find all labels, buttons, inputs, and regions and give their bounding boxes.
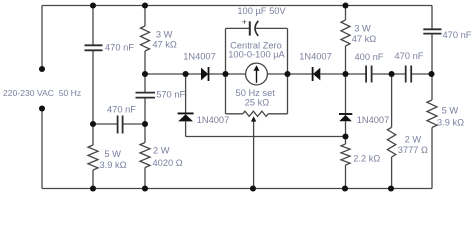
svg-text:2 W: 2 W xyxy=(405,135,422,145)
svg-text:3 W: 3 W xyxy=(354,24,371,34)
svg-text:220-230 VAC 50 Hz: 220-230 VAC 50 Hz xyxy=(3,88,81,98)
svg-text:3777 Ω: 3777 Ω xyxy=(398,145,428,155)
svg-text:50 Hz set: 50 Hz set xyxy=(236,88,276,98)
svg-text:100-0-100 µA: 100-0-100 µA xyxy=(228,50,285,60)
svg-text:5 W: 5 W xyxy=(104,149,121,159)
svg-text:47 kΩ: 47 kΩ xyxy=(352,34,377,44)
svg-text:570 nF: 570 nF xyxy=(156,90,185,100)
svg-text:1N4007: 1N4007 xyxy=(197,115,230,125)
svg-text:470 nF: 470 nF xyxy=(443,30,472,40)
svg-text:47 kΩ: 47 kΩ xyxy=(152,39,177,49)
svg-text:1N4007: 1N4007 xyxy=(183,52,216,62)
svg-text:3.9 kΩ: 3.9 kΩ xyxy=(99,160,126,170)
svg-text:2 W: 2 W xyxy=(153,146,170,156)
svg-text:100 µF 50V: 100 µF 50V xyxy=(237,6,286,16)
svg-text:470 nF: 470 nF xyxy=(395,51,424,61)
svg-text:470 nF: 470 nF xyxy=(107,105,136,115)
svg-text:1N4007: 1N4007 xyxy=(299,52,332,62)
svg-text:3.9 kΩ: 3.9 kΩ xyxy=(437,117,464,127)
svg-text:4020 Ω: 4020 Ω xyxy=(153,158,183,168)
svg-text:5 W: 5 W xyxy=(442,106,459,116)
svg-text:3 W: 3 W xyxy=(156,30,173,40)
svg-text:470 nF: 470 nF xyxy=(105,42,134,52)
svg-text:1N4007: 1N4007 xyxy=(357,115,390,125)
svg-text:400 nF: 400 nF xyxy=(355,52,384,62)
svg-text:+: + xyxy=(242,17,247,27)
svg-text:25 kΩ: 25 kΩ xyxy=(245,97,270,107)
svg-text:2.2 kΩ: 2.2 kΩ xyxy=(353,153,380,163)
